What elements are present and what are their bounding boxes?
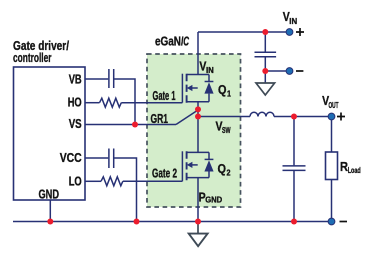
body diode D1 leads (208, 75, 210, 102)
terminal VIN plus (286, 29, 293, 36)
label Q1 (218, 82, 231, 99)
wire minus branch (265, 70, 289, 72)
load resistor lead bottom (331, 180, 333, 222)
node label VIN inside IC (199, 58, 214, 74)
transistor Q1 drain lead (187, 74, 209, 76)
load resistor lead top (331, 117, 333, 153)
wire resistor to Gate 1 (121, 102, 182, 104)
node label VIN top (283, 9, 298, 26)
minus sign VOUT (340, 221, 348, 223)
load resistor R-Load body (326, 152, 338, 180)
body diode D1 triangle (204, 82, 213, 93)
wire VS / GR1 (86, 124, 177, 126)
transistor Q2 channel (186, 151, 188, 180)
svg-text:HO: HO (68, 95, 82, 109)
transistor Q1 gate bar (181, 74, 183, 103)
svg-text:GND: GND (39, 187, 60, 201)
ground symbol main PGND (189, 234, 208, 247)
ground rail (13, 221, 332, 223)
switch node VSW output line (198, 116, 250, 118)
svg-text:LO: LO (69, 174, 82, 188)
junction dot VCC return (134, 219, 140, 225)
svg-text:controller: controller (13, 50, 52, 65)
inductor L1 (250, 112, 274, 116)
svg-text:Load: Load (348, 166, 361, 175)
node label VOUT (322, 93, 338, 110)
resistor LO gate (101, 177, 123, 186)
eGaN IC dashed enclosure (147, 54, 241, 207)
output capacitor C-out bottom lead (293, 171, 295, 222)
svg-text:2: 2 (227, 169, 231, 178)
junction dot switch node lower (195, 114, 201, 120)
label Q2 (218, 161, 231, 178)
svg-text:1: 1 (227, 90, 231, 99)
output capacitor C-out plates (283, 166, 306, 171)
wire Q2 source to PGND rail (197, 178, 199, 222)
svg-text:OUT: OUT (329, 101, 339, 110)
node label VSW (216, 118, 231, 135)
transistor Q2 body arrow (189, 164, 197, 166)
svg-text:Q: Q (218, 82, 227, 97)
body diode D2 triangle (204, 160, 213, 171)
label R Load (340, 159, 361, 175)
wire Q1 source to switch node (197, 102, 199, 117)
junction dot VIN rail (262, 29, 268, 35)
capacitor VCC bypass (109, 149, 114, 169)
plus sign VIN (296, 28, 304, 36)
plus sign VOUT (337, 113, 345, 121)
node label PGND (199, 190, 223, 205)
junction dot PGND (195, 219, 201, 225)
wire PGND to main ground (197, 222, 199, 234)
wire LO to gate resistor (86, 180, 102, 182)
svg-text:GR1: GR1 (151, 112, 169, 126)
wire VIN down to Q1 drain (197, 32, 199, 75)
top VIN rail (198, 31, 290, 33)
terminal VOUT minus (328, 218, 335, 225)
wire VB to bootstrap capacitor (86, 78, 109, 80)
svg-text:IC: IC (181, 34, 189, 49)
wire inductor to VOUT (274, 116, 332, 118)
input capacitor C-in plates (255, 52, 277, 57)
wire VCC to bypass capacitor (86, 157, 109, 159)
svg-text:IN: IN (289, 17, 297, 26)
junction dot VOUT node (291, 114, 297, 120)
wire capacitor to VS node (114, 79, 135, 125)
minus sign VIN (296, 70, 303, 72)
wire to input ground (264, 71, 266, 83)
transistor Q1 source lead (187, 101, 209, 103)
wire capacitor to ground rail (114, 158, 136, 222)
resistor HO gate (100, 98, 122, 107)
transistor Q2 source lead (187, 177, 209, 179)
svg-text:VS: VS (69, 117, 82, 131)
transistor Q2 drain lead (187, 151, 209, 153)
wire resistor to Gate 2 (123, 180, 183, 182)
body diode D2 cathode bar (205, 158, 214, 160)
svg-text:Q: Q (218, 161, 227, 176)
svg-text:VB: VB (69, 72, 82, 86)
junction dot GND pin (47, 219, 53, 225)
junction dot VB cap / VS (132, 122, 138, 128)
junction dot output cap return (291, 219, 297, 225)
transistor Q1 channel (186, 74, 188, 103)
wire GND pin to rail (49, 200, 51, 222)
junction dot VIN minus (262, 68, 268, 74)
body diode D2 leads (208, 152, 210, 177)
transistor Q2 gate bar (181, 151, 183, 181)
svg-text:eGaN: eGaN (155, 34, 181, 49)
junction dot switch node upper (195, 106, 201, 112)
svg-text:IN: IN (206, 66, 214, 75)
output capacitor C-out top lead (293, 117, 295, 166)
svg-text:GND: GND (205, 195, 222, 204)
wire HO to gate resistor (86, 102, 100, 104)
terminal VIN minus (286, 68, 293, 75)
input capacitor C-in bottom lead (264, 57, 266, 71)
svg-text:Gate 2: Gate 2 (152, 167, 177, 181)
label Gate driver/controller (13, 38, 69, 65)
svg-text:VCC: VCC (60, 151, 82, 165)
ground symbol input (256, 83, 275, 95)
input capacitor C-in top lead (264, 32, 266, 52)
svg-text:SW: SW (222, 126, 231, 135)
terminal VOUT plus (328, 113, 335, 120)
wire GR1 diagonal to switch node (176, 110, 198, 125)
wire switch node down to Q2 drain (197, 117, 199, 153)
body diode D1 cathode bar (205, 81, 214, 83)
transistor Q1 body arrow (189, 87, 197, 89)
svg-text:Gate 1: Gate 1 (153, 89, 176, 103)
gate driver/controller box U1 (14, 67, 86, 200)
label eGaN IC (155, 34, 189, 49)
capacitor bootstrap (VB-VS) (109, 69, 114, 88)
